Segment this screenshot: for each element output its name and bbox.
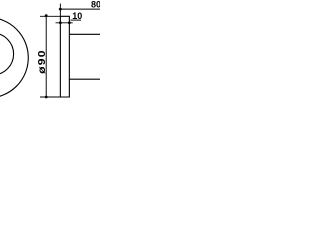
flange plate side view outline — [60, 16, 69, 97]
dot terminator 80 left — [59, 8, 62, 11]
dot terminator 10 right — [68, 21, 71, 24]
extension line 80-dim left (above flange) — [59, 4, 61, 17]
dot terminator ⌀90 top — [45, 14, 48, 17]
extension line bottom (⌀90 / flange bottom) — [40, 96, 60, 98]
dimension line ⌀90 (vertical) — [45, 16, 47, 97]
hub top edge side view — [69, 33, 100, 35]
svg-text:ø90: ø90 — [37, 49, 48, 74]
dot terminator 10 left — [59, 21, 62, 24]
leader underline for 10 — [71, 19, 82, 21]
svg-text:80: 80 — [91, 0, 100, 9]
dimension line 10 — [56, 22, 73, 24]
dimension line 80 — [59, 8, 100, 10]
extension line top (⌀90 / flange top) — [40, 15, 60, 17]
hub circle front view (partial arc) — [0, 33, 14, 75]
hub bottom edge side view — [69, 78, 100, 80]
dot terminator ⌀90 bottom — [45, 96, 48, 99]
outer circle ⌀90 front view (partial arc) — [0, 17, 28, 98]
svg-text:10: 10 — [72, 11, 82, 21]
